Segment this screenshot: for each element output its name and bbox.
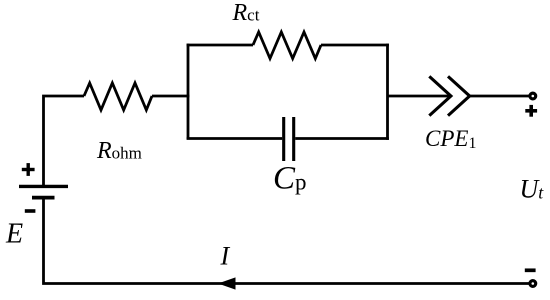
- wire node A to resistor Rct: [187, 44, 253, 47]
- svg-text:Cp: Cp: [273, 161, 307, 197]
- constant phase element CPE1: [429, 76, 469, 115]
- node A left junction of parallel Rct / Cp: [187, 44, 190, 140]
- svg-text:I: I: [220, 242, 231, 271]
- battery positive sign +: [22, 163, 35, 176]
- current arrow I: [218, 277, 236, 289]
- wire node A to capacitor Cp: [187, 137, 283, 140]
- negative output terminal: [530, 281, 536, 287]
- svg-text:Rohm: Rohm: [96, 138, 142, 164]
- positive output terminal: [530, 93, 536, 99]
- capacitor Cp: [284, 117, 294, 161]
- wire battery positive up and right to resistor Rohm: [44, 96, 85, 186]
- svg-text:CPE1: CPE1: [425, 126, 476, 152]
- wire Cp to node B: [295, 137, 389, 140]
- resistor Rohm: [84, 83, 152, 110]
- label - at negative terminal: [525, 268, 536, 272]
- node B right junction of parallel Rct / Cp: [386, 44, 389, 140]
- wire Rct to node B: [321, 44, 389, 47]
- svg-text:Ut: Ut: [520, 175, 545, 204]
- label + at positive terminal: [525, 105, 537, 117]
- wire CPE1 to positive output terminal: [470, 95, 529, 98]
- battery E: [19, 186, 68, 197]
- wire negative terminal bottom return to battery: [44, 198, 529, 284]
- wire Rohm to node A: [152, 95, 189, 98]
- resistor Rct: [253, 32, 321, 59]
- svg-text:Rct: Rct: [232, 0, 260, 26]
- battery negative sign -: [25, 209, 36, 213]
- svg-text:E: E: [5, 219, 23, 250]
- wire node B to CPE1: [388, 95, 452, 98]
